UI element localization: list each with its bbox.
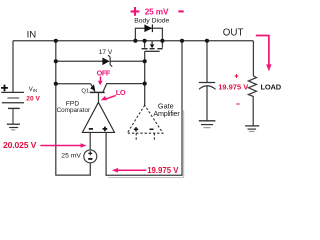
svg-text:LO: LO: [116, 88, 126, 97]
svg-text:20 V: 20 V: [26, 96, 40, 103]
svg-text:19.975 V: 19.975 V: [147, 166, 179, 175]
svg-text:Comparator: Comparator: [57, 107, 91, 114]
svg-text:OFF: OFF: [97, 68, 111, 77]
svg-text:Amplifier: Amplifier: [153, 109, 180, 118]
svg-text:19.975 V: 19.975 V: [218, 83, 248, 92]
svg-text:IN: IN: [27, 29, 37, 40]
svg-text:LOAD: LOAD: [261, 82, 282, 91]
svg-text:Body Diode: Body Diode: [134, 18, 169, 25]
svg-text:20.025 V: 20.025 V: [3, 140, 37, 150]
svg-text:VIN: VIN: [29, 87, 37, 93]
svg-text:Q1: Q1: [81, 88, 89, 94]
svg-text:25 mV: 25 mV: [61, 153, 81, 160]
svg-text:OUT: OUT: [223, 27, 244, 38]
svg-text:17 V: 17 V: [99, 49, 113, 56]
svg-text:25 mV: 25 mV: [145, 7, 169, 17]
